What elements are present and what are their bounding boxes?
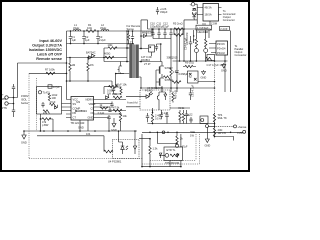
- label isolation: [21, 94, 29, 105]
- svg-text:TB 124 D43: TB 124 D43: [71, 121, 85, 125]
- opto U4 diode: [133, 142, 136, 154]
- svg-text:400Ω: 400Ω: [104, 52, 110, 56]
- wire aux: [198, 81, 215, 83]
- wire sense rail dotted: [214, 61, 216, 139]
- wire vout return: [215, 137, 234, 141]
- svg-text:10Ω: 10Ω: [108, 43, 113, 47]
- wire cap bottom rail: [153, 38, 171, 40]
- svg-text:Si7892: Si7892: [165, 78, 174, 82]
- node dots bus: [179, 60, 226, 62]
- resistor R36: [43, 110, 49, 114]
- title text block: [29, 39, 63, 61]
- wire sense taps: [180, 20, 185, 61]
- transformer T1 secondary: [135, 45, 138, 79]
- wire secondary taps: [139, 49, 162, 89]
- resistor R20: [179, 110, 181, 122]
- capacitor C13: [107, 115, 110, 122]
- svg-text:1µF: 1µF: [85, 38, 90, 42]
- svg-text:HEADER: HEADER: [198, 30, 209, 34]
- label remote: [127, 24, 141, 31]
- diode D1 dual: [89, 54, 95, 59]
- resistor R6: [87, 58, 89, 82]
- capacitor C31: [189, 88, 192, 100]
- svg-text:VREF: VREF: [89, 102, 96, 106]
- svg-text:+Sense: +Sense: [238, 125, 247, 129]
- svg-text:R7 160k: R7 160k: [45, 68, 55, 72]
- wire secondary gnd: [140, 87, 215, 89]
- resistor R25: [213, 126, 215, 136]
- wire sense dotted: [215, 125, 234, 127]
- resistor R35: [100, 107, 108, 109]
- svg-text:GND: GND: [205, 144, 211, 148]
- bias box: [37, 87, 62, 115]
- connector strip J1: [196, 25, 212, 30]
- svg-text:GND: GND: [78, 126, 84, 130]
- svg-text:TPM BOOM: TPM BOOM: [165, 161, 179, 165]
- svg-text:p BW: p BW: [42, 123, 49, 127]
- svg-text:2T 2T: 2T 2T: [144, 62, 151, 66]
- capacitor C15: [112, 87, 115, 94]
- svg-text:1 Y 8 5A7: 1 Y 8 5A7: [197, 26, 209, 30]
- text parallel connector: [235, 44, 247, 57]
- resistor R10: [48, 93, 50, 101]
- border frame: [1, 1, 249, 171]
- resistor R29: [172, 92, 174, 103]
- resistor R4: [69, 58, 71, 82]
- svg-text:1M: 1M: [72, 63, 76, 67]
- svg-text:10k: 10k: [123, 114, 128, 118]
- svg-text:2 AU9: 2 AU9: [220, 27, 228, 31]
- transformer T1 primary: [129, 45, 132, 79]
- transistor Q2b: [204, 49, 208, 53]
- opto transistor: [157, 92, 159, 108]
- svg-text:Connector: Connector: [235, 53, 247, 57]
- capacitor C26: [156, 7, 159, 15]
- IC U7 opto quad: [203, 4, 219, 22]
- pin stubs U1 right: [94, 100, 127, 118]
- terminal vout: [243, 130, 246, 133]
- wire sec bottom: [161, 88, 163, 92]
- ground U7: [192, 16, 196, 20]
- wire snubber: [127, 44, 134, 46]
- svg-text:Output 3.3V@7A: Output 3.3V@7A: [32, 43, 62, 47]
- svg-text:4B 3A: 4B 3A: [205, 6, 212, 10]
- inductor L2: [101, 30, 109, 31]
- wire input vertical: [14, 63, 18, 104]
- resistor R26: [104, 150, 113, 153]
- svg-text:48V: 48V: [2, 97, 7, 101]
- resistor R27: [149, 139, 151, 167]
- wire mid rail: [67, 43, 135, 45]
- diode D8: [55, 105, 58, 109]
- testpoint TP2: [206, 125, 209, 128]
- snubber R2: [127, 31, 129, 44]
- wire loop: [157, 132, 177, 143]
- wire primary return: [109, 74, 130, 87]
- svg-text:0.068µF: 0.068µF: [179, 72, 189, 76]
- svg-text:4.7µF: 4.7µF: [53, 85, 60, 89]
- IC U1 controller: [71, 97, 94, 121]
- resistor R11: [50, 103, 56, 107]
- mosfet Q1: [118, 62, 123, 74]
- svg-text:0.1%: 0.1%: [155, 117, 162, 121]
- svg-text:400 1/8: 400 1/8: [174, 90, 178, 99]
- svg-text:33µH: 33µH: [73, 26, 79, 30]
- capacitor C7: [41, 102, 44, 108]
- ground Q3: [202, 70, 206, 75]
- svg-text:GND: GND: [88, 116, 94, 120]
- pin stubs U7 left: [197, 8, 203, 15]
- svg-text:C17 4.7µF 10V: C17 4.7µF 10V: [207, 63, 225, 67]
- resistor R32: [176, 132, 178, 144]
- node dots gate row: [66, 57, 89, 82]
- connector strip J2: [220, 27, 230, 31]
- resistor R7: [46, 72, 55, 75]
- resistor R17: [170, 39, 172, 93]
- input terminal RTN: [5, 102, 8, 105]
- svg-text:47k: 47k: [43, 111, 48, 115]
- svg-text:BAT54C: BAT54C: [86, 51, 96, 55]
- resistor R13: [113, 96, 122, 99]
- svg-text:RTN: RTN: [2, 106, 7, 110]
- transistor Q4: [38, 91, 41, 94]
- capacitor C20: [165, 112, 168, 124]
- resistor R1: [86, 30, 96, 33]
- testpoint TP1: [162, 131, 165, 134]
- svg-text:Remote sense: Remote sense: [36, 57, 62, 61]
- wire sec bus: [142, 131, 243, 133]
- resistor R30 sense: [109, 85, 118, 88]
- capacitor C14: [189, 36, 192, 61]
- ground right: [222, 63, 226, 68]
- capacitor C10: [151, 29, 154, 39]
- svg-text:GND: GND: [21, 141, 27, 145]
- svg-text:Input 46-60V: Input 46-60V: [39, 39, 62, 43]
- svg-text:100: 100: [52, 96, 57, 100]
- svg-text:1µF: 1µF: [72, 38, 77, 42]
- svg-text:MAX5014: MAX5014: [75, 109, 87, 113]
- resistor R23: [205, 33, 207, 49]
- resistor R3: [105, 56, 114, 59]
- resistor R21: [206, 57, 212, 61]
- svg-text:PR D6: PR D6: [217, 42, 225, 46]
- svg-text:COM: COM: [211, 22, 217, 26]
- svg-text:330µF: 330µF: [160, 10, 168, 14]
- mosfet Q6: [156, 78, 164, 92]
- wire top rail: [67, 30, 153, 32]
- svg-text:1B 5A: 1B 5A: [205, 13, 212, 17]
- diode D11 dual: [193, 8, 197, 15]
- capacitor C5 input: [12, 84, 15, 98]
- svg-text:PD-D2: PD-D2: [217, 51, 225, 55]
- resistor R37: [108, 47, 117, 50]
- wire bottom vert: [142, 134, 181, 167]
- resistor R33: [164, 76, 170, 80]
- svg-text:Latch off OVP: Latch off OVP: [37, 52, 63, 56]
- wire U1 gnd: [80, 120, 88, 131]
- capacitor C11: [157, 29, 160, 39]
- resistor R16: [120, 87, 122, 96]
- svg-text:R9 10Ω: R9 10Ω: [185, 61, 194, 65]
- resistor R8: [174, 29, 183, 36]
- snubber C4: [131, 31, 134, 44]
- svg-text:U1: U1: [77, 100, 81, 104]
- wire fb row: [148, 108, 215, 124]
- node dots input rail: [70, 30, 128, 44]
- capacitor C23: [175, 144, 178, 147]
- svg-text:0.1µF: 0.1µF: [162, 111, 169, 115]
- capacitor C25 top: [48, 85, 52, 88]
- dashed shield outer left: [29, 73, 143, 158]
- svg-text:SML TK: SML TK: [218, 116, 227, 120]
- svg-text:Sense: Sense: [127, 27, 135, 31]
- svg-text:OC: OC: [91, 111, 95, 115]
- opto U4 LED: [121, 142, 128, 154]
- box D12: [207, 55, 215, 61]
- capacitor C1: [69, 31, 73, 44]
- wire gate row: [67, 57, 128, 59]
- wire tap feed upper: [104, 48, 129, 62]
- svg-text:Si7892: Si7892: [165, 66, 174, 70]
- svg-text:MBRS340: MBRS340: [142, 31, 154, 35]
- opto U3: [140, 90, 170, 110]
- node dots output rail: [152, 28, 185, 30]
- ground TP: [205, 128, 209, 143]
- text to output connector: [223, 9, 236, 22]
- ground cs: [112, 118, 116, 127]
- zener DZ3: [164, 92, 167, 100]
- mosfet Q5: [156, 62, 164, 79]
- svg-text:ISOL: ISOL: [21, 98, 27, 102]
- svg-text:U3 MOC207: U3 MOC207: [147, 86, 162, 90]
- wire source sense: [104, 74, 124, 95]
- wire tap feed lower: [104, 61, 127, 63]
- svg-text:Isolation 1500VDC: Isolation 1500VDC: [29, 48, 62, 52]
- capacitor C19: [185, 110, 188, 120]
- svg-text:47k: 47k: [90, 63, 95, 67]
- capacitor C27: [155, 44, 161, 51]
- svg-text:A and Ad: A and Ad: [127, 101, 138, 105]
- inductor L1: [73, 30, 81, 31]
- svg-text:PD+D4: PD+D4: [217, 47, 226, 51]
- wire U7 bottom: [202, 21, 210, 25]
- wire gnd bus bottom: [24, 130, 137, 132]
- svg-text:TPM: TPM: [237, 131, 242, 135]
- wire J1 drops: [194, 30, 209, 43]
- capacitor C16: [175, 29, 178, 92]
- wire sync gates: [155, 70, 157, 88]
- capacitor C2: [82, 31, 86, 44]
- wire comp row: [170, 108, 190, 124]
- resistor R18: [151, 113, 153, 124]
- svg-text:2.2µF: 2.2µF: [99, 38, 106, 42]
- svg-text:barrier: barrier: [21, 101, 29, 105]
- resistor R9: [183, 65, 196, 67]
- wire primary bottom: [67, 81, 113, 87]
- transistor Q2a: [194, 49, 198, 53]
- box T2 aux: [188, 71, 199, 83]
- svg-text:1.3k: 1.3k: [153, 147, 159, 151]
- wire output top line: [141, 19, 197, 21]
- wire left vertical: [66, 31, 68, 100]
- svg-text:GND: GND: [111, 128, 117, 132]
- svg-text:1W: 1W: [190, 134, 194, 138]
- svg-text:104: 104: [86, 132, 91, 136]
- pin stubs U7 right: [219, 8, 222, 15]
- resistor R5: [174, 28, 183, 31]
- box U2 reference: [164, 147, 183, 161]
- ground primary: [22, 131, 26, 139]
- wire U2 drops: [170, 134, 181, 167]
- svg-text:1W 1%: 1W 1%: [218, 131, 227, 135]
- resistor R19: [172, 81, 181, 84]
- box U6 error amp: [200, 116, 208, 124]
- resistor R14: [113, 109, 122, 112]
- terminal VCC aux: [191, 2, 195, 6]
- resistor R15: [119, 112, 121, 122]
- wire input leads: [8, 98, 17, 104]
- capacitor C6 input: [12, 104, 15, 118]
- capacitor C8: [110, 102, 113, 109]
- diode D2: [106, 94, 109, 99]
- wire cs row: [109, 121, 121, 131]
- svg-text:R5 2mΩ: R5 2mΩ: [173, 22, 183, 26]
- svg-text:10Ω: 10Ω: [87, 26, 92, 30]
- transistor U2 circle: [165, 154, 169, 158]
- pin stubs U1 left: [62, 100, 72, 118]
- wire primary taps: [127, 48, 129, 62]
- wire output rail: [148, 20, 211, 30]
- svg-text:2.2µF: 2.2µF: [98, 111, 105, 115]
- svg-text:1W: 1W: [107, 92, 111, 96]
- diode D4 rect: [141, 20, 152, 49]
- wire drain: [126, 31, 128, 48]
- wire aux row: [37, 136, 104, 152]
- wire top feed: [18, 62, 67, 64]
- zener D7: [159, 153, 165, 158]
- svg-text:GND: GND: [201, 76, 207, 80]
- wire uvlo feed: [29, 72, 67, 74]
- resistor R12: [42, 118, 51, 121]
- input terminal 48V: [5, 96, 8, 99]
- wire opto U4 leads: [119, 131, 136, 142]
- pin stubs J3: [209, 44, 216, 53]
- zener D5: [176, 153, 179, 158]
- dashed shield inner left: [36, 78, 38, 131]
- capacitor C24: [189, 117, 192, 123]
- wire bias to gnd: [40, 114, 53, 131]
- svg-text:Connector: Connector: [223, 18, 235, 22]
- capacitor C3: [96, 31, 100, 44]
- resistor R28: [170, 154, 179, 157]
- capacitor C22: [160, 112, 163, 119]
- label R31: [190, 130, 195, 138]
- resistor R22: [195, 33, 197, 49]
- svg-text:PA0810: PA0810: [141, 58, 151, 62]
- svg-text:1500V: 1500V: [21, 94, 29, 98]
- svg-text:C31 4.7µF: C31 4.7µF: [191, 84, 195, 97]
- svg-text:47µF: 47µF: [50, 100, 56, 104]
- gate drive box: [149, 45, 155, 52]
- svg-text:NDRV: NDRV: [86, 98, 94, 102]
- capacitor C9: [108, 107, 111, 112]
- svg-text:33µH: 33µH: [100, 26, 106, 30]
- opto LED: [144, 92, 153, 98]
- svg-text:CT: CT: [73, 116, 77, 120]
- svg-text:30BQ015: 30BQ015: [167, 56, 179, 60]
- svg-text:22µF: 22µF: [163, 25, 169, 29]
- wire bus y61: [173, 60, 228, 62]
- capacitor C21: [169, 29, 172, 39]
- capacitor C12: [163, 29, 166, 39]
- svg-text:U4 PS2801: U4 PS2801: [108, 160, 122, 164]
- svg-text:GND: GND: [221, 69, 227, 73]
- transformer T1 core: [133, 45, 136, 79]
- resistor R24: [213, 113, 215, 126]
- wire gate vert: [160, 44, 162, 62]
- capacitor C18: [146, 113, 149, 122]
- svg-text:ETR TL: ETR TL: [167, 148, 176, 152]
- dashed shield right: [142, 134, 200, 164]
- IC J3 connector: [216, 41, 228, 55]
- wire right rails: [225, 31, 231, 93]
- svg-text:47.5k: 47.5k: [113, 106, 120, 110]
- wire opto leads: [126, 92, 165, 113]
- svg-text:C14 4.7µF: C14 4.7µF: [184, 37, 188, 50]
- opto U4: [113, 140, 140, 159]
- wire U7 left vert: [195, 4, 197, 24]
- terminal sense: [234, 125, 237, 128]
- resistor R34: [182, 110, 184, 124]
